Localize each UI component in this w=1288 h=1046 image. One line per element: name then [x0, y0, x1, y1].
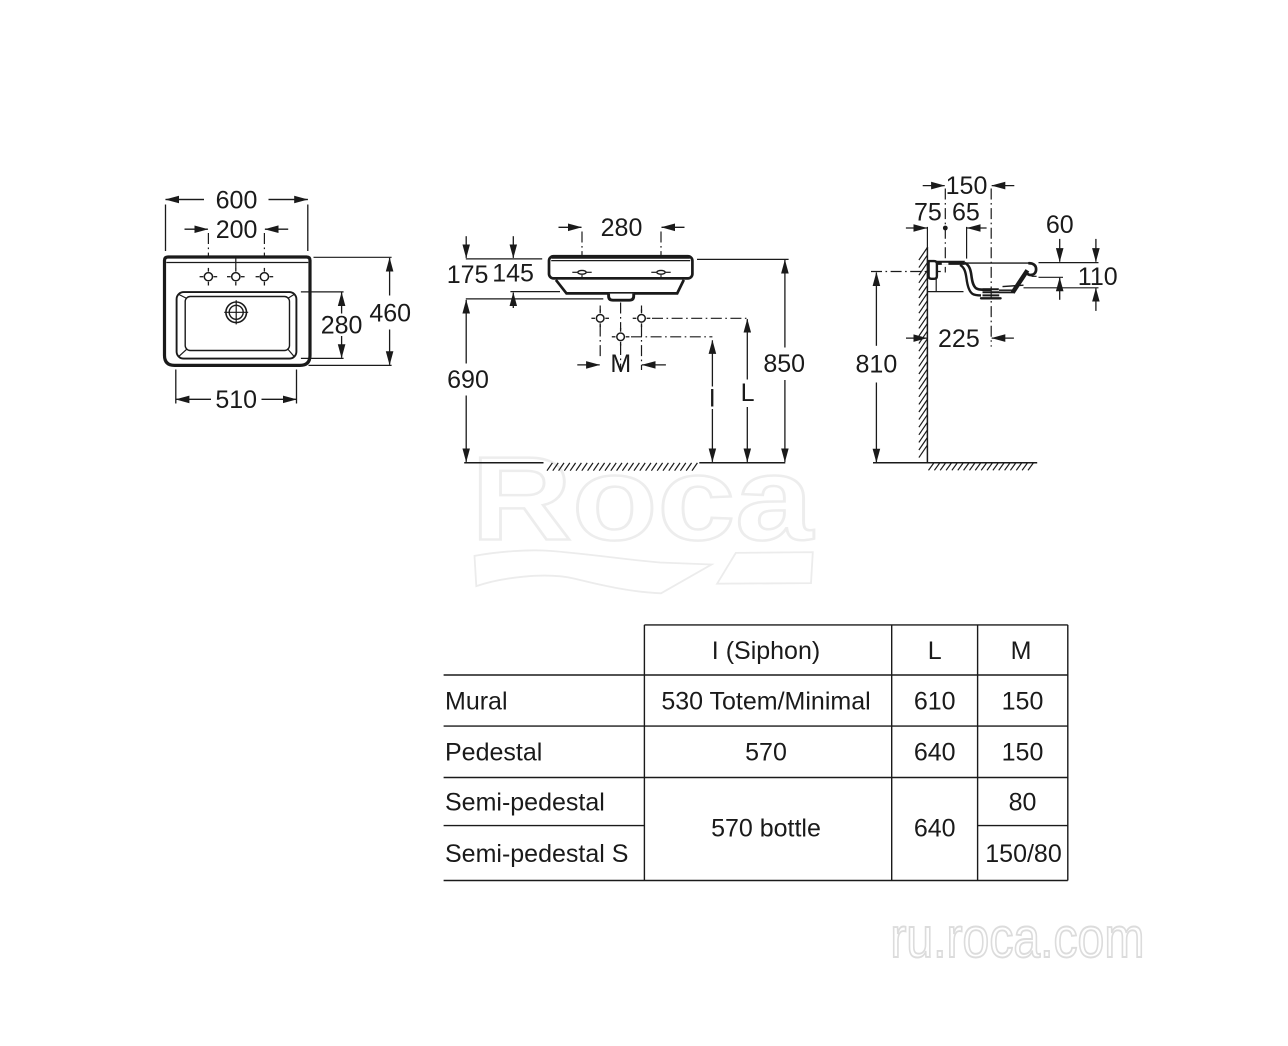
basin corner diagonal top-left — [179, 295, 187, 299]
svg-text:600: 600 — [216, 186, 258, 214]
dim 150 arrows and label — [923, 185, 945, 187]
svg-text:I: I — [709, 384, 716, 412]
svg-text:145: 145 — [492, 259, 534, 287]
svg-text:ru.roca.com: ru.roca.com — [890, 906, 1144, 970]
basin opening outer rounded rect — [177, 292, 297, 359]
wall hatching — [919, 248, 928, 261]
svg-text:60: 60 — [1046, 211, 1074, 239]
floor hatching under front view — [547, 463, 552, 471]
svg-text:Semi-pedestal S: Semi-pedestal S — [445, 840, 628, 868]
dim 75 dot terminator — [943, 226, 948, 231]
dim 280 right vertical line with arrows — [341, 293, 343, 314]
dim 850 vertical line with arrows — [784, 260, 786, 348]
table row2 bottom line — [444, 777, 1068, 779]
dim 60 up arrow — [1059, 278, 1061, 300]
fixing hole right — [638, 315, 646, 323]
svg-text:850: 850 — [763, 350, 805, 378]
basin corner diagonal bottom-right — [287, 349, 293, 357]
table row3 split line — [444, 825, 645, 827]
svg-text:175: 175 — [447, 261, 489, 289]
dim 110 down arrow — [1095, 239, 1097, 262]
faucet hole middle centerline — [235, 256, 237, 269]
dim 175 down arrow — [465, 236, 467, 258]
side profile deck top bar — [937, 261, 965, 265]
svg-text:150: 150 — [1002, 739, 1044, 767]
side profile mounting tab — [929, 261, 937, 279]
dim 850 extension line — [697, 258, 789, 260]
dim 60 top extension line — [1039, 262, 1099, 264]
svg-text:Roca: Roca — [471, 433, 814, 566]
dim 280 front arrows and label — [559, 226, 582, 228]
side profile bowl interior right slope — [1003, 285, 1024, 286]
ref line 175 bottom — [466, 298, 604, 300]
side profile lip underside line — [1032, 275, 1037, 277]
svg-text:Pedestal: Pedestal — [445, 739, 542, 767]
dim 600 dimension line with outward arrows — [166, 199, 205, 201]
table vertical line col2 — [891, 625, 893, 881]
dim 145 down arrow — [512, 236, 514, 258]
svg-text:65: 65 — [952, 198, 980, 226]
table top border — [644, 624, 1067, 626]
dim M arrows and label — [577, 364, 599, 366]
svg-text:75: 75 — [914, 198, 942, 226]
svg-text:640: 640 — [914, 814, 956, 842]
svg-text:150/80: 150/80 — [985, 840, 1061, 868]
front rim outline — [549, 256, 692, 278]
faucet hole left — [204, 273, 212, 281]
svg-text:570: 570 — [745, 739, 787, 767]
svg-text:690: 690 — [447, 366, 489, 394]
svg-text:M: M — [1011, 637, 1032, 665]
dim 810 vertical line with arrows — [875, 272, 877, 345]
table bottom border — [444, 880, 1068, 882]
dim 600 extension lines — [165, 205, 167, 252]
floor hatching side view — [929, 463, 934, 470]
dim 110 up arrow — [1095, 288, 1097, 311]
svg-text:150: 150 — [946, 172, 988, 200]
siphon hole middle — [617, 333, 625, 341]
side profile bowl underside right — [999, 289, 1014, 291]
dim 510 extension lines — [175, 370, 177, 404]
svg-text:150: 150 — [1002, 687, 1044, 715]
floor line left segment — [464, 462, 543, 464]
table header bottom line — [444, 674, 1068, 676]
faucet hole right — [260, 273, 268, 281]
svg-text:460: 460 — [369, 299, 411, 327]
front faucet hole right — [657, 270, 665, 274]
tap hole centerline (dash-dot) — [944, 189, 946, 273]
basin corner diagonal bottom-left — [179, 349, 187, 356]
svg-text:I (Siphon): I (Siphon) — [712, 637, 820, 665]
floor line side view — [873, 462, 1037, 464]
svg-text:225: 225 — [938, 325, 980, 353]
svg-text:530 Totem/Minimal: 530 Totem/Minimal — [661, 687, 870, 715]
dim 75 arrow to wall — [906, 227, 927, 229]
svg-text:570 bottle: 570 bottle — [711, 814, 821, 842]
ref line top of basin front — [466, 258, 542, 260]
dim 460 vertical line with arrows — [389, 258, 391, 296]
drain inner circle — [229, 305, 243, 319]
faucet hole middle — [232, 273, 240, 281]
dim 280 right extension lines — [301, 291, 344, 293]
dash-dot from siphon hole to I line — [631, 336, 712, 338]
table vertical line right border — [1067, 625, 1069, 881]
svg-text:Semi-pedestal: Semi-pedestal — [445, 788, 605, 816]
dim 510 dimension line and label — [176, 398, 211, 400]
dim 60 bottom extension line — [1039, 276, 1064, 278]
ref line 145 bottom — [510, 291, 560, 293]
side profile bowl back wall (outer) — [960, 265, 981, 296]
front faucet centerlines (dash-dot) — [581, 232, 583, 267]
svg-text:L: L — [741, 379, 755, 407]
dim 60 down arrow — [1059, 239, 1061, 262]
front body trapezoid — [556, 280, 684, 294]
dim 225 right arrow — [992, 337, 1014, 339]
floor line right segment — [699, 462, 785, 464]
dim 690 vertical line with arrows — [465, 300, 467, 364]
side profile front diagonal — [1013, 270, 1028, 292]
svg-text:L: L — [928, 637, 942, 665]
side profile drain stack — [983, 288, 999, 290]
dim L vertical line with arrows — [746, 319, 748, 379]
svg-text:610: 610 — [914, 687, 956, 715]
mount axis dash-dot horizontal — [871, 271, 942, 273]
dash-dot from right fixing hole to L line — [652, 317, 747, 319]
dim 110 bottom extension line — [1024, 287, 1099, 289]
side profile bowl back wall (inner) — [965, 263, 991, 290]
top view rim inner edge line — [166, 262, 308, 264]
side profile front lip — [1026, 263, 1036, 275]
siphon hole centerline stubs — [620, 303, 622, 330]
drain crosshair — [224, 311, 248, 313]
extension line x=966.6 — [966, 227, 968, 259]
svg-text:280: 280 — [321, 311, 363, 339]
svg-text:80: 80 — [1009, 788, 1037, 816]
fixing hole left — [596, 315, 604, 323]
Roca watermark swoosh wave — [475, 550, 712, 593]
front drain boss — [609, 294, 634, 301]
Roca watermark swoosh quad — [717, 552, 813, 584]
table vertical line col1 — [643, 625, 645, 881]
dim 145 up arrow — [512, 293, 514, 308]
front faucet hole left — [578, 270, 586, 274]
basin corner diagonal top-right — [288, 295, 294, 299]
svg-text:110: 110 — [1078, 263, 1118, 291]
table vertical line col3 — [977, 625, 979, 881]
side profile hidden underside back — [935, 279, 937, 292]
svg-text:640: 640 — [914, 739, 956, 767]
side profile rim top line — [965, 262, 1031, 264]
dim 225 left arrow — [906, 337, 927, 339]
dim 200 arrows and label — [185, 228, 208, 230]
svg-text:Mural: Mural — [445, 687, 508, 715]
drain centerline (dash-dot) — [990, 189, 992, 347]
basin bottom inner rounded rect — [185, 297, 289, 351]
svg-text:510: 510 — [215, 386, 257, 414]
dim I vertical line with arrows — [711, 340, 713, 386]
front rim inner edge line — [551, 260, 690, 262]
drain outer circle — [226, 302, 247, 323]
svg-text:M: M — [610, 350, 631, 378]
svg-text:280: 280 — [601, 214, 643, 242]
table row1 bottom line — [444, 725, 1068, 727]
top view basin body outline — [165, 257, 311, 365]
fixing hole left centerline stubs — [599, 306, 601, 312]
dim 65 arrow — [967, 227, 987, 229]
svg-text:810: 810 — [856, 351, 898, 379]
wall line — [926, 247, 928, 463]
fixing hole right centerline stubs — [641, 306, 643, 312]
dim 460 extension lines — [314, 256, 392, 258]
dim 200 centerlines (dash-dot) — [207, 233, 209, 272]
svg-text:200: 200 — [216, 216, 258, 244]
